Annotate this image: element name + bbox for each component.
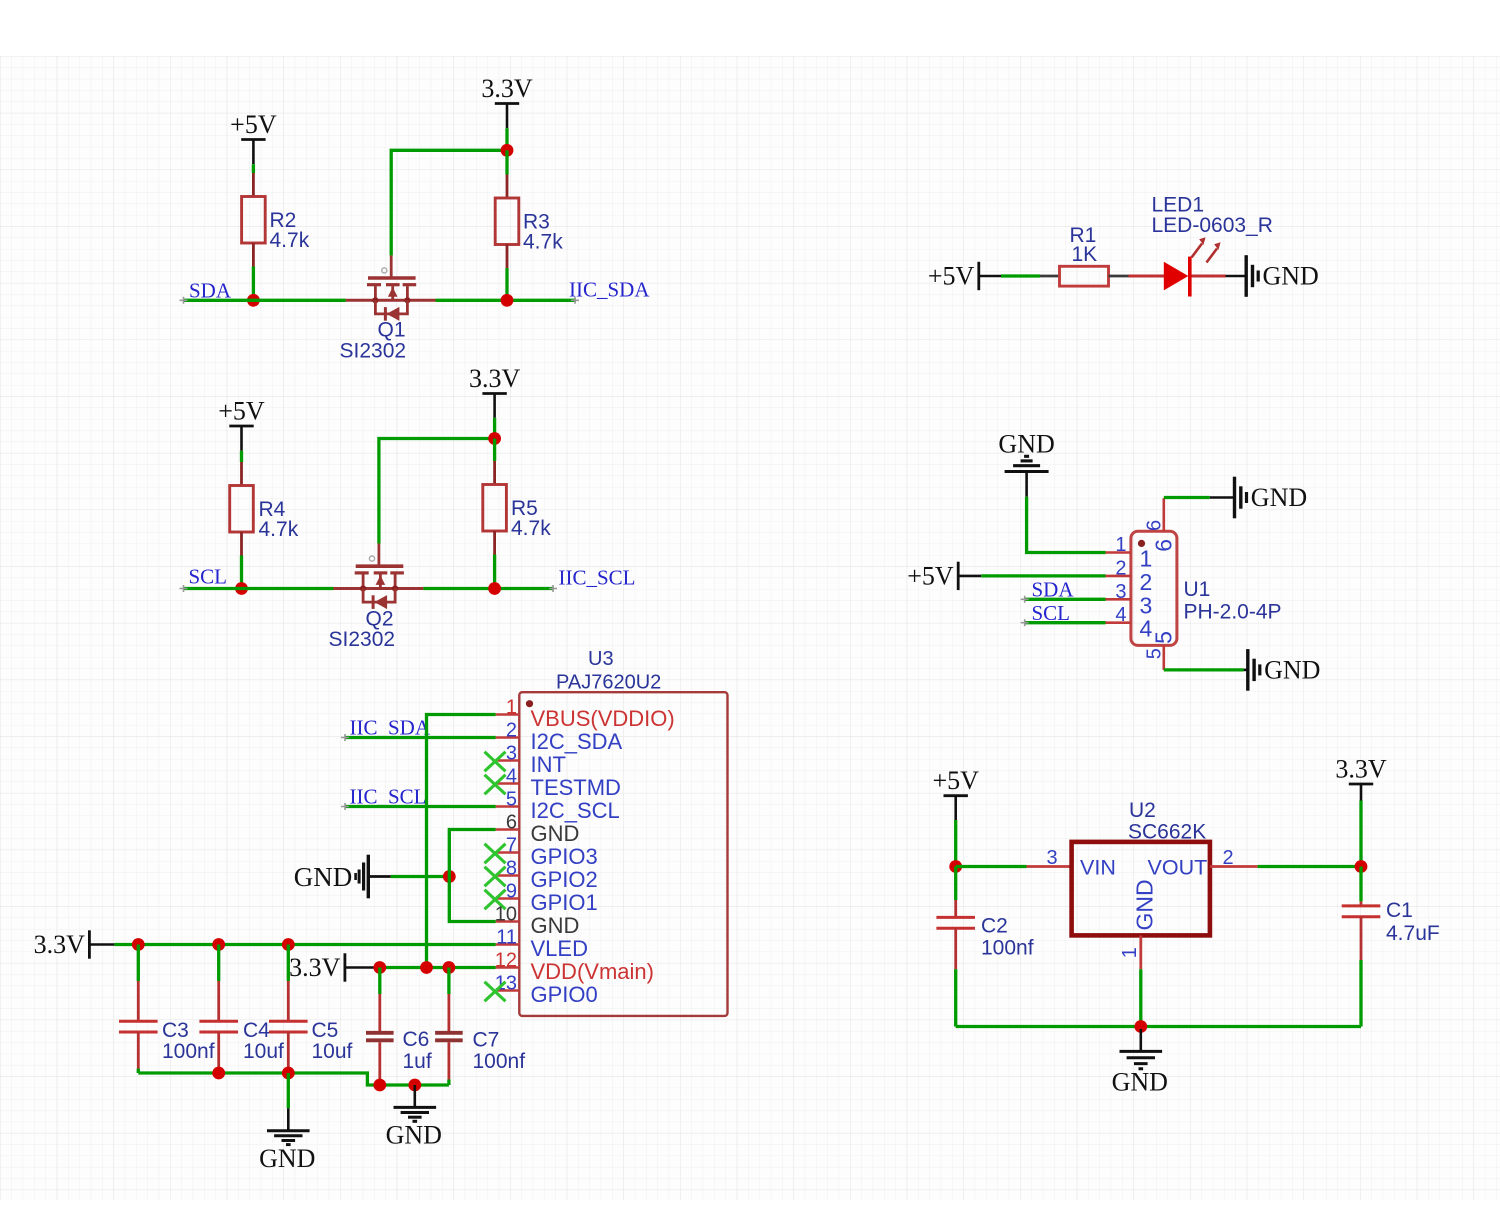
- wire R3 to IIC_SDA rail: [505, 268, 508, 300]
- node C6 bottom: [373, 1079, 386, 1092]
- svg-text:GND: GND: [1263, 262, 1319, 291]
- wire C6 upper lead: [378, 968, 381, 995]
- node C7 top: [443, 961, 456, 974]
- svg-text:+5V: +5V: [907, 561, 954, 590]
- svg-text:3.3V: 3.3V: [469, 364, 521, 393]
- svg-text:GND: GND: [531, 913, 580, 938]
- svg-text:10uf: 10uf: [243, 1040, 284, 1063]
- node ground junction: [1134, 1020, 1147, 1033]
- svg-text:PH-2.0-4P: PH-2.0-4P: [1184, 601, 1282, 624]
- svg-text:INT: INT: [531, 752, 566, 777]
- wire R4 to SCL rail: [240, 556, 243, 589]
- node GND junction: [443, 870, 456, 883]
- svg-text:VOUT: VOUT: [1148, 856, 1208, 880]
- regulator U2 body: [1072, 842, 1210, 936]
- ground GND below C6/C7: [386, 1085, 442, 1150]
- no-connect X pin 7: [485, 844, 506, 864]
- svg-text:3: 3: [1047, 847, 1058, 869]
- svg-text:3: 3: [1140, 592, 1153, 618]
- svg-text:GND: GND: [531, 821, 580, 846]
- resistor R2: [242, 173, 310, 267]
- wire C7 lower lead: [447, 1042, 450, 1079]
- resistor R3: [495, 175, 563, 269]
- node 3.3V junction: [501, 144, 514, 157]
- wire R1 to LED: [1129, 275, 1165, 278]
- wire C7 upper lead: [447, 968, 450, 995]
- svg-text:U3: U3: [588, 648, 614, 670]
- svg-text:6: 6: [506, 812, 517, 834]
- svg-text:U1: U1: [1184, 578, 1211, 601]
- svg-text:GND: GND: [294, 862, 353, 892]
- svg-text:SCL: SCL: [189, 565, 228, 589]
- svg-text:1: 1: [506, 697, 517, 719]
- power flag 3.3V: [481, 74, 533, 128]
- svg-text:I2C_SDA: I2C_SDA: [531, 729, 623, 754]
- no-connect X pin 3: [485, 752, 506, 772]
- svg-text:1: 1: [1119, 947, 1141, 958]
- svg-text:5: 5: [1144, 648, 1166, 659]
- wire VBUS pin1 riser: [427, 715, 496, 968]
- wire C5 to GND: [287, 1073, 290, 1108]
- svg-text:2: 2: [1115, 557, 1126, 579]
- svg-text:1uf: 1uf: [403, 1050, 432, 1073]
- wire LED to GND: [1192, 275, 1226, 278]
- wire from 3.3V: [493, 418, 496, 439]
- capacitor C1: [1342, 899, 1440, 945]
- wire SDA rail left: [183, 299, 346, 302]
- wire SDA to pin3: [1024, 598, 1105, 601]
- svg-text:GND: GND: [1264, 655, 1320, 684]
- svg-text:C2: C2: [981, 915, 1008, 938]
- connector U1 body: [1131, 531, 1177, 645]
- capacitor C4: [199, 1019, 284, 1063]
- svg-text:GPIO3: GPIO3: [531, 844, 598, 869]
- U3 pin 2 I2C_SDA: [496, 720, 623, 755]
- wire IIC_SCL to pin 5: [345, 805, 496, 808]
- power flag 3.3V: [34, 930, 115, 959]
- svg-text:3: 3: [506, 743, 517, 765]
- svg-text:8: 8: [506, 858, 517, 880]
- svg-text:PAJ7620U2: PAJ7620U2: [556, 672, 661, 694]
- svg-text:10: 10: [495, 904, 517, 926]
- ground flag GND left of U3: [294, 855, 391, 899]
- ground flag top right of U1: [1210, 477, 1307, 519]
- node C5 bottom: [282, 1067, 295, 1080]
- wire C3 upper lead: [137, 945, 140, 982]
- svg-text:C3: C3: [162, 1019, 189, 1042]
- wire R5 to IIC_SCL rail: [493, 555, 496, 589]
- node GND2 junction: [408, 1079, 421, 1092]
- svg-text:+5V: +5V: [218, 397, 265, 426]
- wire SCL to pin4: [1024, 621, 1105, 624]
- no-connect X pin 4: [485, 775, 506, 795]
- transistor Q1: [340, 255, 436, 362]
- svg-text:2: 2: [506, 720, 517, 742]
- wire pin6 to GND: [1164, 496, 1210, 499]
- svg-text:+5V: +5V: [932, 766, 979, 795]
- node IIC_SDA junction: [501, 294, 514, 307]
- U3 pin 4 TESTMD: [496, 766, 621, 801]
- no-connect X pin 13: [485, 982, 506, 1002]
- wire from +5V: [252, 164, 255, 173]
- svg-text:4.7k: 4.7k: [523, 231, 563, 254]
- svg-text:1: 1: [1115, 534, 1126, 556]
- capacitor C6: [366, 1028, 432, 1073]
- wire C1 upper lead: [1359, 867, 1362, 902]
- svg-text:+5V: +5V: [928, 262, 975, 291]
- svg-text:4.7k: 4.7k: [511, 517, 551, 540]
- power flag +5V: [907, 561, 981, 590]
- wire Q1 gate riser: [391, 150, 507, 255]
- capacitor C3: [119, 1019, 215, 1063]
- node IIC_SCL junction: [488, 582, 501, 595]
- svg-text:13: 13: [495, 973, 517, 995]
- svg-text:4.7k: 4.7k: [270, 229, 310, 252]
- svg-text:3.3V: 3.3V: [481, 74, 533, 103]
- wire C4 lower lead: [217, 1032, 220, 1069]
- svg-text:5: 5: [1151, 631, 1177, 644]
- svg-text:4.7uF: 4.7uF: [1386, 922, 1440, 945]
- svg-text:3.3V: 3.3V: [34, 930, 86, 959]
- svg-text:VLED: VLED: [531, 936, 588, 961]
- svg-text:GND: GND: [1251, 483, 1307, 512]
- node C4 top: [212, 938, 225, 951]
- wire 3.3V to R3: [505, 150, 508, 174]
- power flag +5V: [218, 397, 265, 451]
- power flag 3.3V: [1335, 755, 1387, 801]
- wire GND to pin1: [1027, 497, 1106, 553]
- svg-text:7: 7: [506, 835, 517, 857]
- U1 pin 2: [1106, 557, 1153, 595]
- node +5V / C2 junction: [949, 860, 962, 873]
- transistor Q2: [329, 544, 424, 652]
- node VBUS riser junction: [420, 961, 433, 974]
- wire GND pin6 to pin10: [449, 830, 495, 922]
- no-connect X pin 9: [485, 890, 506, 910]
- wire C1 lower lead: [1360, 917, 1363, 960]
- wire C5 lower lead: [287, 1032, 290, 1069]
- svg-text:11: 11: [496, 927, 517, 949]
- resistor R5: [483, 461, 551, 555]
- U3 body: [519, 692, 727, 1016]
- wire 3.3V to R5: [493, 439, 496, 462]
- U3 pin 3 INT: [496, 743, 566, 778]
- wire bottom ground rail left: [138, 1073, 449, 1085]
- wire +5V to pin2: [981, 574, 1105, 577]
- power flag +5V: [230, 110, 277, 164]
- U3 pin 7 GPIO3: [496, 835, 598, 870]
- wire C3 lower lead: [137, 1032, 140, 1069]
- no-connect X pin 8: [485, 867, 506, 887]
- U2 pin 2 stub: [1210, 865, 1258, 868]
- wire from +5V: [240, 451, 243, 462]
- ground GND below C5: [259, 1108, 315, 1173]
- svg-text:IIC_SCL: IIC_SCL: [559, 566, 636, 590]
- capacitor C7: [435, 1029, 525, 1074]
- node C6 top: [373, 961, 386, 974]
- svg-text:SI2302: SI2302: [340, 340, 407, 363]
- svg-text:C1: C1: [1386, 899, 1413, 922]
- svg-text:GND: GND: [259, 1144, 315, 1173]
- node C3 top: [132, 938, 145, 951]
- wire R2 to SDA rail: [252, 267, 255, 301]
- svg-text:Q1: Q1: [378, 319, 406, 342]
- U1 pin 3: [1106, 581, 1153, 619]
- svg-text:6: 6: [1144, 520, 1166, 531]
- svg-text:1K: 1K: [1072, 243, 1098, 266]
- svg-text:100nf: 100nf: [981, 937, 1034, 960]
- svg-text:3: 3: [1115, 581, 1126, 603]
- svg-text:GPIO0: GPIO0: [531, 982, 598, 1007]
- U1 pin 6 (top): [1144, 498, 1177, 552]
- svg-text:SC662K: SC662K: [1128, 821, 1206, 844]
- U3 pin 1 VBUS(VDDIO): [496, 697, 675, 732]
- svg-text:100nf: 100nf: [162, 1040, 215, 1063]
- resistor R4: [230, 462, 299, 556]
- wire C2 lower lead: [954, 928, 957, 969]
- power flag 3.3V: [469, 364, 521, 418]
- U1 pin 4: [1106, 604, 1153, 642]
- svg-text:VBUS(VDDIO): VBUS(VDDIO): [531, 706, 675, 731]
- wire C2 upper lead: [954, 867, 957, 901]
- svg-text:C4: C4: [243, 1019, 270, 1042]
- svg-text:GND: GND: [386, 1121, 442, 1150]
- capacitor C2: [936, 915, 1033, 960]
- wire to VIN: [956, 865, 1027, 868]
- svg-text:TESTMD: TESTMD: [531, 775, 621, 800]
- node VOUT / C1 junction: [1355, 860, 1368, 873]
- svg-text:GND: GND: [998, 430, 1054, 459]
- svg-text:GND: GND: [1112, 1068, 1168, 1097]
- svg-text:U2: U2: [1129, 799, 1156, 822]
- wire VOUT to 3.3V: [1258, 865, 1361, 868]
- svg-text:SI2302: SI2302: [329, 628, 396, 651]
- svg-text:LED-0603_R: LED-0603_R: [1152, 214, 1273, 237]
- wire GND flag to node: [391, 875, 450, 878]
- svg-text:IIC_SDA: IIC_SDA: [569, 278, 650, 302]
- U2 pin 3 stub: [1027, 865, 1072, 868]
- svg-text:12: 12: [495, 950, 517, 972]
- svg-text:C5: C5: [312, 1019, 339, 1042]
- svg-text:10uf: 10uf: [312, 1040, 353, 1063]
- U3 pin 12 VDD(Vmain): [495, 950, 654, 985]
- U3 pin 11 VLED: [496, 927, 588, 962]
- svg-text:+5V: +5V: [230, 110, 277, 139]
- wire SDA rail right (IIC_SDA): [436, 299, 577, 302]
- power flag 3.3V: [289, 953, 378, 982]
- svg-text:GND: GND: [1132, 879, 1158, 930]
- U2 pin names: [1080, 856, 1207, 931]
- ground flag right of LED: [1226, 255, 1319, 297]
- svg-text:I2C_SCL: I2C_SCL: [531, 798, 620, 823]
- wire VLED rail: [114, 943, 495, 946]
- svg-text:VIN: VIN: [1080, 856, 1116, 880]
- node 3.3V junction 2: [488, 432, 501, 445]
- U3 pin 10 GND: [495, 904, 580, 939]
- svg-text:3.3V: 3.3V: [289, 953, 341, 982]
- wire C4 upper lead: [217, 945, 220, 982]
- capacitor C5: [269, 1019, 353, 1063]
- svg-text:2: 2: [1140, 569, 1153, 595]
- wire C5 upper lead: [287, 945, 290, 982]
- svg-text:4: 4: [506, 766, 517, 788]
- node SCL junction: [235, 582, 248, 595]
- resistor R1: [1040, 224, 1129, 286]
- wire SCL rail right (IIC_SCL): [423, 587, 554, 590]
- wire +5V to R1: [1001, 274, 1040, 277]
- power flag +5V: [932, 766, 979, 820]
- wire C6 lower lead: [378, 1042, 381, 1079]
- ground flag above U1: [998, 430, 1054, 497]
- svg-text:GPIO2: GPIO2: [531, 867, 598, 892]
- svg-text:5: 5: [506, 789, 517, 811]
- wire from 3.3V: [505, 128, 508, 150]
- svg-text:9: 9: [506, 881, 517, 903]
- LED LED1: [1152, 194, 1273, 297]
- svg-text:100nf: 100nf: [473, 1050, 526, 1073]
- power flag +5V: [928, 262, 1001, 291]
- node C5 top: [282, 938, 295, 951]
- U1 pin 1: [1106, 534, 1153, 572]
- U2 pin 1 stub: [1139, 935, 1142, 969]
- wire IIC_SDA to pin 2: [345, 736, 496, 739]
- svg-text:VDD(Vmain): VDD(Vmain): [531, 959, 654, 984]
- wire U2 bottom ground rail: [956, 1025, 1361, 1028]
- svg-text:4.7k: 4.7k: [259, 518, 299, 541]
- svg-text:2: 2: [1223, 847, 1234, 869]
- U1 pin 5 (bottom): [1144, 631, 1177, 670]
- node C4 bottom: [212, 1067, 225, 1080]
- ground GND below U2: [1112, 1029, 1168, 1097]
- wire pin5 to GND: [1164, 668, 1244, 671]
- svg-text:6: 6: [1151, 539, 1177, 552]
- svg-text:4: 4: [1115, 604, 1126, 626]
- U3 pin 9 GPIO1: [496, 881, 598, 916]
- U3 pin 8 GPIO2: [496, 858, 598, 893]
- U3 pin 5 I2C_SCL: [496, 789, 620, 824]
- node SDA junction: [247, 294, 260, 307]
- wire Q2 gate riser: [379, 439, 495, 544]
- ground flag bottom right of U1: [1244, 649, 1321, 691]
- U3 pin 13 GPIO0: [495, 973, 598, 1008]
- U3 pin 6 GND: [496, 812, 580, 847]
- svg-text:C6: C6: [403, 1028, 430, 1051]
- wire SCL rail left: [183, 587, 334, 590]
- wire from +5V: [954, 820, 957, 861]
- wire from 3.3V: [1359, 801, 1362, 861]
- svg-text:3.3V: 3.3V: [1335, 755, 1387, 784]
- wire VDD rail: [378, 966, 496, 969]
- svg-text:C7: C7: [473, 1029, 500, 1052]
- wire pin1 to ground rail: [1139, 969, 1142, 1026]
- svg-text:GPIO1: GPIO1: [531, 890, 598, 915]
